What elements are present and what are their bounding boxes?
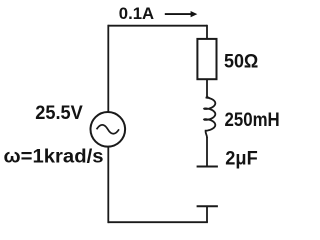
wire inductor to capacitor (206, 137, 208, 167)
current arrow head (191, 11, 198, 17)
capacitor C1 top plate (197, 166, 218, 168)
wire left upper vertical (107, 25, 109, 112)
wire resistor to inductor (206, 79, 208, 97)
resistor R1 (197, 39, 216, 79)
svg-text:50Ω: 50Ω (224, 51, 258, 73)
capacitor C1 bottom plate (197, 205, 218, 207)
ac source V1 sine wave (97, 125, 119, 134)
svg-text:25.5V: 25.5V (35, 102, 83, 124)
svg-text:2μF: 2μF (225, 147, 258, 169)
svg-text:ω=1krad/s: ω=1krad/s (4, 146, 104, 168)
wire capacitor to bottom (206, 206, 208, 222)
wire top horizontal (108, 25, 207, 27)
wire right top vertical (206, 25, 208, 39)
current arrow shaft (165, 13, 191, 15)
ac source V1 circle (91, 112, 126, 147)
svg-text:0.1A: 0.1A (119, 4, 154, 23)
svg-text:250mH: 250mH (225, 109, 280, 131)
inductor L1 (204, 96, 215, 137)
wire bottom horizontal (108, 221, 208, 223)
wire left lower vertical (107, 147, 109, 224)
